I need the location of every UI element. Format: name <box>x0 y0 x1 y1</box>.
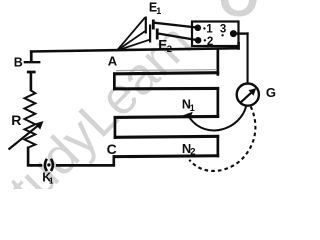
svg-text:2: 2 <box>190 147 195 158</box>
terminal label dot 3 <box>221 34 223 36</box>
terminal 2 binding post <box>195 37 202 44</box>
solid jockey curve G to N1 <box>190 106 246 131</box>
cell E1 long plate <box>145 17 147 34</box>
terminal 3 binding post <box>230 30 237 37</box>
galvanometer G circle <box>237 84 259 106</box>
terminal label dot 2 <box>204 39 206 41</box>
key K1: contact dot <box>47 163 50 166</box>
cell E1 short plate <box>152 20 155 30</box>
fan wire A to E1 plate top <box>117 18 145 51</box>
potentiometer wire seg2 <box>113 87 219 91</box>
svg-text:G: G <box>266 85 276 100</box>
svg-text:1: 1 <box>190 103 195 113</box>
wire: bottom rail right of key to C jog <box>56 164 115 167</box>
serpentine left vertical V3 <box>114 116 117 139</box>
wire: vertical V0 from top wire down to serpentine seg1 <box>217 49 220 76</box>
battery B: bottom stub <box>30 72 33 92</box>
potentiometer wire seg4 <box>114 135 220 139</box>
faint scan line above seg1 <box>116 69 216 71</box>
svg-text:1: 1 <box>206 24 213 36</box>
potentiometer wire seg1 <box>113 71 219 75</box>
wire: top horizontal from B to box <box>30 47 240 53</box>
svg-text:1: 1 <box>49 175 54 185</box>
battery B: top stub <box>30 50 33 61</box>
terminal label dot 1 <box>203 27 205 29</box>
serpentine left vertical V1 <box>113 72 116 90</box>
wire: jog up at C <box>113 155 116 166</box>
cell E2 short plate <box>156 29 159 40</box>
two-way key box <box>192 22 239 47</box>
svg-text:R: R <box>11 112 21 128</box>
battery B: short plate <box>27 71 36 74</box>
svg-text:2: 2 <box>167 44 172 55</box>
svg-text:B: B <box>14 55 23 69</box>
wire: bottom rail left of key <box>27 164 42 167</box>
rheostat arrow <box>9 125 39 149</box>
dashed jockey curve G to N2 <box>189 107 255 171</box>
galvanometer needle <box>240 92 253 104</box>
resistor R zigzag <box>25 91 36 148</box>
svg-text:1: 1 <box>156 6 161 16</box>
wire E1 to terminal 1 <box>154 23 198 28</box>
wire terminal 3 to galvanometer <box>233 32 248 34</box>
wire E2 to terminal 2 <box>158 34 198 41</box>
wire: upturn at right end of top wire into box corner <box>237 42 240 50</box>
fan wire A to E1 plate bottom <box>117 31 145 51</box>
key K1: left arc <box>45 159 47 171</box>
serpentine right vertical V4 <box>217 135 220 158</box>
potentiometer wire seg3 <box>114 115 220 119</box>
arrowhead at N1 <box>183 112 193 119</box>
key K1: right arc <box>51 159 53 171</box>
potentiometer wire seg5 <box>113 154 220 158</box>
serpentine right vertical V2 <box>217 87 220 118</box>
svg-text:3: 3 <box>220 23 226 35</box>
fan wire A to E2 plate <box>117 40 149 51</box>
svg-text:2: 2 <box>207 36 213 48</box>
battery B: long plate <box>24 61 41 63</box>
cell E2 long plate <box>149 25 151 43</box>
wire: R bottom down to bottom rail <box>27 147 30 165</box>
svg-text:A: A <box>108 54 118 69</box>
terminal 1 binding post <box>195 25 202 32</box>
svg-text:C: C <box>107 141 117 157</box>
